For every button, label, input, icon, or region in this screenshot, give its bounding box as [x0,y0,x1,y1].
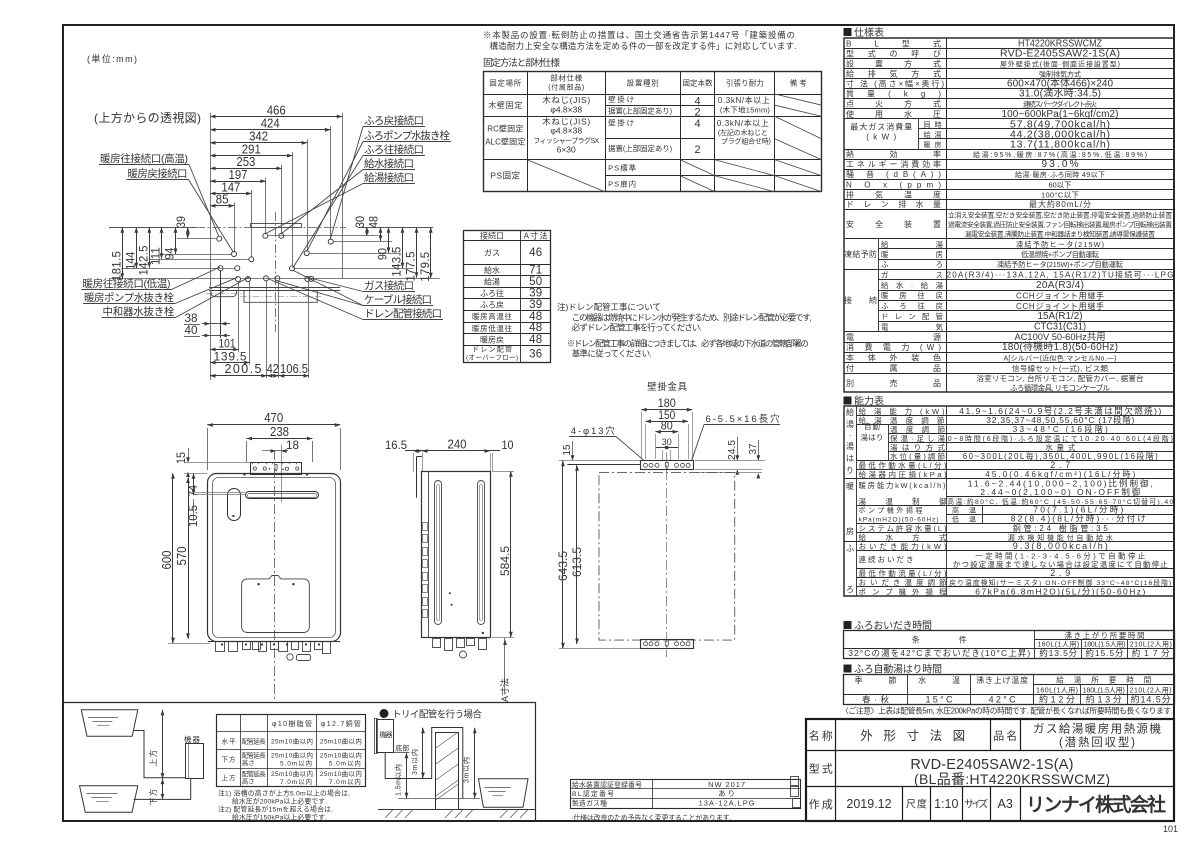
front view mount dots [243,473,245,475]
svg-text:ガス接続口: ガス接続口 [364,279,414,292]
svg-text:部材仕様: 部材仕様 [550,73,583,83]
svg-text:最大約80mL/分: 最大約80mL/分 [1029,199,1091,209]
svg-text:壁掛け: 壁掛け [608,118,634,128]
svg-text:暖房高温往: 暖房高温往 [472,311,513,321]
top view front tab [211,290,237,297]
svg-text:は: は [846,454,854,463]
side view small dots [449,592,451,594]
svg-text:ALC壁固定: ALC壁固定 [485,137,525,147]
svg-text:接続口: 接続口 [480,230,504,240]
dim 48 [380,227,382,241]
fixing table void diagonals [775,94,822,105]
front view top bracket [251,463,302,475]
svg-text:おいだき能力(kW): おいだき能力(kW) [859,541,948,551]
svg-text:16.5: 16.5 [385,438,407,452]
svg-text:6×30: 6×30 [557,145,576,155]
svg-text:ふろ自動湯はり時間: ふろ自動湯はり時間 [854,663,942,676]
svg-text:424: 424 [261,117,280,131]
svg-text:2.7: 2.7 [1050,460,1070,470]
spec row max gas consumption [844,118,1175,120]
svg-text:A[シルバー(近似色:マンセルNo.—): A[シルバー(近似色:マンセルNo.—) [1004,354,1117,363]
svg-text:106.5: 106.5 [280,362,308,376]
svg-text:(付属部品): (付属部品) [548,83,584,92]
torii piping title [380,709,389,718]
lower tub [80,786,138,813]
svg-text:暖房往接続口(高温): 暖房往接続口(高温) [100,152,188,165]
svg-text:給: 給 [846,407,854,417]
cert table [571,780,801,809]
svg-text:φ4.8×38: φ4.8×38 [550,126,582,136]
svg-text:給水: 給水 [484,265,500,275]
svg-text:5.0m以内: 5.0m以内 [329,759,361,768]
svg-text:570: 570 [175,546,189,565]
svg-text:ふろポンプ水抜き栓: ふろポンプ水抜き栓 [364,129,451,142]
svg-text:240: 240 [448,438,467,452]
svg-text:ふ: ふ [846,544,854,553]
svg-text:沸き上がり所要時間: 沸き上がり所要時間 [1065,630,1145,640]
side view top dims [405,450,500,452]
svg-text:210L(2人用): 210L(2人用) [1130,687,1172,695]
svg-text:PS固定: PS固定 [490,171,520,181]
svg-text:39: 39 [529,299,542,311]
svg-text:凍結予防ヒータ(215W): 凍結予防ヒータ(215W) [1016,240,1104,249]
piping section box [63,702,535,704]
svg-text:高さ: 高さ [242,777,255,786]
svg-text:181.5: 181.5 [111,251,123,281]
svg-text:自動: 自動 [864,421,881,431]
svg-text:2019.12: 2019.12 [846,797,891,811]
svg-text:漏電安全装置,沸騰防止装置,中和器詰まり検知装置,誘導雷保護: 漏電安全装置,沸騰防止装置,中和器詰まり検知装置,誘導雷保護装置 [965,230,1155,239]
svg-text:48: 48 [369,216,381,228]
svg-text:25m10曲以内: 25m10曲以内 [320,736,362,745]
svg-text:180L(1.5人用): 180L(1.5人用) [1083,687,1125,695]
svg-text:33~48°C (16段階): 33~48°C (16段階) [1013,424,1108,434]
svg-text:中和器水抜き栓: 中和器水抜き栓 [103,305,176,318]
capacity pump sub column [982,506,984,524]
connection A-dim table [464,231,551,363]
svg-text:暖房往接続口(低温): 暖房往接続口(低温) [83,277,171,290]
svg-text:構造耐力上安全な構造方法を定める件の一部を改定する件」に対応: 構造耐力上安全な構造方法を定める件の一部を改定する件」に対応しています. [490,41,797,51]
svg-text:2: 2 [694,107,700,119]
svg-text:(BL品番:HT4220KRSSWCMZ): (BL品番:HT4220KRSSWCMZ) [914,771,1110,787]
top view vertical centerline [275,212,277,332]
svg-text:湯はり: 湯はり [861,432,884,442]
svg-text:20A(R3/4)···13A,12A, 15A(R1/2): 20A(R3/4)···13A,12A, 15A(R1/2)TU接続可···LP… [947,270,1174,280]
svg-text:50: 50 [529,276,542,288]
svg-text:給湯接続口: 給湯接続口 [364,171,414,184]
front view dim 238 [247,438,313,440]
svg-text:壁掛け: 壁掛け [608,94,634,104]
svg-text:型 式 の 呼 び: 型 式 の 呼 び [846,48,941,58]
svg-text:暖房ポンプ水抜き栓: 暖房ポンプ水抜き栓 [84,291,175,304]
svg-text:60以下: 60以下 [1049,180,1073,189]
svg-text:2: 2 [694,144,700,156]
svg-text:下方: 下方 [222,755,237,764]
svg-text:CCHジョイント用継手: CCHジョイント用継手 [1016,290,1104,300]
top view bottom dims [210,292,212,380]
svg-text:179.5: 179.5 [420,252,432,282]
svg-text:101: 101 [1163,824,1178,834]
svg-text:37: 37 [747,443,759,454]
svg-text:木壁固定: 木壁固定 [488,100,522,110]
svg-text:25m10曲以内: 25m10曲以内 [320,751,362,760]
svg-text:トリイ配管を行う場合: トリイ配管を行う場合 [392,709,482,721]
svg-text:180(待機時1.8)(50-60Hz): 180(待機時1.8)(50-60Hz) [1002,340,1118,353]
svg-text:94: 94 [165,247,177,260]
torii dims [422,728,424,778]
svg-text:暖房戻: 暖房戻 [480,335,504,345]
svg-text:底部: 底部 [395,744,409,753]
svg-text:142.5: 142.5 [138,246,150,276]
svg-text:7.0m以内: 7.0m以内 [329,777,361,786]
svg-text:据置(上部固定あり): 据置(上部固定あり) [608,143,673,153]
svg-text:最低作動流量(L/分): 最低作動流量(L/分) [859,568,948,578]
svg-text:過電流安全装置,過圧防止安全装置,ファン回転検出装置,暖房ポ: 過電流安全装置,過圧防止安全装置,ファン回転検出装置,暖房ポンプ回転検出装置 [948,220,1172,229]
spec row drain amount [844,209,1175,211]
svg-text:木ねじ(JIS): 木ねじ(JIS) [542,95,590,105]
svg-text:600: 600 [160,550,174,569]
svg-text:〈ご注意〉上表は配管長5m, 水圧200kPaの時の時間です: 〈ご注意〉上表は配管長5m, 水圧200kPaの時の時間です. 配管が長くなれば… [841,706,1173,716]
spec rows connections [878,279,1174,281]
svg-text:屋外壁掛式(後面·側面近接設置型): 屋外壁掛式(後面·側面近接設置型) [1000,60,1120,69]
svg-text:φ4.8×38: φ4.8×38 [550,105,582,115]
svg-text:A3: A3 [998,797,1013,811]
svg-text:38: 38 [185,313,198,325]
capacity table header [844,397,852,405]
svg-text:RC壁固定: RC壁固定 [487,124,523,134]
svg-text:15A(R1/2): 15A(R1/2) [1038,311,1083,322]
svg-text:15: 15 [561,444,573,455]
svg-text:584.5: 584.5 [498,546,512,576]
capacity table group column [856,407,858,597]
svg-text:給水装置認証登録番号: 給水装置認証登録番号 [572,780,642,789]
svg-text:低 温: 低 温 [952,515,976,524]
svg-text:約15.5分: 約15.5分 [1086,648,1124,658]
svg-text:48: 48 [529,322,542,334]
svg-text:177.5: 177.5 [406,252,418,282]
svg-text:システム許容水量(L): システム許容水量(L) [859,523,948,533]
svg-text:※本製品の設置·転倒防止の措置は、国土交通省告示第1447号: ※本製品の設置·転倒防止の措置は、国土交通省告示第1447号「建築設備の [483,30,795,40]
svg-text:尺度: 尺度 [906,798,927,811]
svg-text:·仕様は改良のため予告なく変更することがあります.: ·仕様は改良のため予告なく変更することがあります. [571,813,731,822]
svg-text:3m以内: 3m以内 [462,757,471,783]
svg-text:PS扉内: PS扉内 [608,179,636,189]
torii wall hatched [436,733,459,810]
svg-text:壁掛金具: 壁掛金具 [647,381,687,393]
svg-text:71: 71 [529,265,542,277]
svg-text:39: 39 [529,288,542,300]
svg-text:160L(1人用): 160L(1人用) [1036,687,1078,695]
front view dim 18 [262,450,288,452]
svg-text:配管延長: 配管延長 [242,769,267,778]
svg-text:浴室リモコン, 台所リモコン, 配管カバー, 据置台: 浴室リモコン, 台所リモコン, 配管カバー, 据置台 [977,373,1144,383]
svg-text:0.3kN/本以上: 0.3kN/本以上 [718,95,770,105]
svg-text:給 排 気 方 式: 給 排 気 方 式 [846,69,941,79]
front view bottom pipes [216,642,225,652]
svg-text:13.7(11,800kcal/h): 13.7(11,800kcal/h) [1010,139,1110,151]
svg-text:PS標準: PS標準 [608,163,637,173]
svg-text:ケーブル接続口: ケーブル接続口 [364,293,432,306]
svg-text:ガス給湯暖房用熱源機: ガス給湯暖房用熱源機 [1033,722,1162,736]
down dim [162,779,164,800]
svg-text:この機器は燃焼中にドレン水が発生するため、別途ドレン配管が必: この機器は燃焼中にドレン水が発生するため、別途ドレン配管が必要です, [572,313,812,323]
svg-text:一定時間(1·2·3·4.5·6分)で自動停止: 一定時間(1·2·3·4.5·6分)で自動停止 [975,551,1146,561]
spec rows heat efficiency etc [844,159,1175,161]
svg-text:180: 180 [658,396,676,410]
svg-text:湯: 湯 [846,419,854,429]
top view datum bar left [109,227,196,229]
svg-text:ガス: ガス [484,247,500,257]
svg-text:1:10: 1:10 [934,797,958,811]
svg-text:機器: 機器 [380,730,393,739]
svg-text:(単位:mm): (単位:mm) [87,53,137,64]
lower pipe [134,779,191,800]
svg-text:設置種別: 設置種別 [627,78,659,88]
svg-text:製造ガス種: 製造ガス種 [572,799,607,808]
svg-text:下方: 下方 [148,789,158,806]
top view right vertical dims [388,227,390,253]
svg-text:リンナイ株式会社: リンナイ株式会社 [1026,793,1166,816]
bracket dim 30 [656,447,678,449]
svg-text:101: 101 [219,337,236,351]
front view bottom panel [242,576,310,633]
svg-text:200.5: 200.5 [225,362,262,376]
svg-text:ドレン配管: ドレン配管 [472,345,512,354]
svg-text:·: · [849,431,852,440]
svg-text:ふろ循環金具, リモコンケーブル: ふろ循環金具, リモコンケーブル [1010,383,1111,393]
spec row safety devices [844,238,1175,240]
svg-text:仕様表: 仕様表 [854,26,884,39]
svg-text:固定本数: 固定本数 [683,78,714,88]
title block outer [806,719,1174,821]
svg-text:10: 10 [502,438,514,452]
svg-text:備考: 備考 [790,78,808,88]
svg-text:引張り耐力: 引張り耐力 [726,78,764,88]
svg-text:46: 46 [529,247,542,259]
svg-text:注2) 配管延長が15mを超える場合は,: 注2) 配管延長が15mを超える場合は, [218,805,333,814]
fixing method table [484,72,822,192]
svg-text:φ10樹脂管: φ10樹脂管 [272,719,312,728]
front view dim 470 [207,424,340,426]
svg-text:466: 466 [267,103,286,117]
svg-text:高 温: 高 温 [952,506,976,515]
updown dim [162,710,164,779]
svg-text:25m10曲以内: 25m10曲以内 [271,736,313,745]
svg-text:A寸法: A寸法 [499,678,510,702]
svg-text:25m10曲以内: 25m10曲以内 [271,751,313,760]
side view wall bracket [416,456,418,497]
svg-text:BL認定番号: BL認定番号 [572,789,614,798]
svg-text:給水接続口: 給水接続口 [364,157,414,170]
svg-text:32,35,37~48,50,55,60°C (17段階): 32,35,37~48,50,55,60°C (17段階) [986,415,1134,425]
dim 30 [366,227,368,236]
svg-text:凍結予防: 凍結予防 [844,249,877,259]
front view left pill [228,489,241,521]
svg-text:AC100V 50-60Hz共用: AC100V 50-60Hz共用 [1015,332,1106,343]
svg-text:房: 房 [846,526,854,536]
svg-text:31.0(満水時:34.5): 31.0(満水時:34.5) [1019,88,1101,100]
svg-text:上方: 上方 [222,773,237,782]
front view body [208,474,341,642]
top view horizontal dimension stack [210,116,342,118]
svg-text:4: 4 [694,118,700,130]
svg-text:13A·12A,LPG: 13A·12A,LPG [699,799,755,808]
svg-text:RVD-E2405SAW2-1S(A): RVD-E2405SAW2-1S(A) [1000,47,1120,59]
svg-text:25m10曲以内: 25m10曲以内 [320,769,362,778]
svg-text:4-φ13穴: 4-φ13穴 [571,425,615,437]
svg-text:1.5m以内: 1.5m以内 [394,764,403,796]
top view horizontal centerline [196,227,346,229]
svg-text:2.44~0(2,100~0) ON-OFF制御: 2.44~0(2,100~0) ON-OFF制御 [980,487,1140,497]
svg-text:600×470(本体466)×240: 600×470(本体466)×240 [1007,77,1113,90]
svg-text:(オーバーフロー): (オーバーフロー) [466,354,518,362]
side view bottom pipes [433,639,441,648]
spec table header [844,28,852,36]
svg-text:(木下地15mm): (木下地15mm) [720,105,771,115]
bracket unit outline dash-dot [599,472,735,640]
svg-text:144: 144 [125,251,137,270]
capacity table outer [844,406,1174,596]
bath auto fill table header [844,665,852,673]
svg-text:上方: 上方 [148,750,158,767]
svg-text:必ずドレン配管工事を行ってください.: 必ずドレン配管工事を行ってください. [572,323,702,333]
svg-text:湯: 湯 [846,441,854,451]
svg-text:水 温: 水 温 [918,675,960,685]
svg-text:kPa(mH2O)(50-60Hz): kPa(mH2O)(50-60Hz) [859,517,939,524]
svg-text:水平: 水平 [222,736,237,745]
top view inner rect [251,224,302,228]
title block row3 cols [902,786,904,821]
svg-text:固定方法と部材仕様: 固定方法と部材仕様 [483,57,560,69]
svg-text:配管延長: 配管延長 [242,736,267,745]
svg-text:238: 238 [270,425,289,439]
svg-text:給湯·暖房·ふろ同時 49以下: 給湯·暖房·ふろ同時 49以下 [1015,170,1105,179]
svg-text:2.9: 2.9 [1050,568,1070,578]
svg-text:(左記の木ねじと: (左記の木ねじと [718,128,768,137]
svg-text:給水圧が200kPa以上必要です.: 給水圧が200kPa以上必要です. [232,797,327,806]
svg-text:接 続: 接 続 [844,295,877,305]
bath reheat table header [844,621,852,629]
svg-text:CCHジョイント用継手: CCHジョイント用継手 [1016,301,1104,311]
svg-text:30: 30 [662,437,672,448]
ground line and hatch [378,809,535,811]
torii pipe path [385,728,463,800]
svg-text:信号線セット(一式), ビス類: 信号線セット(一式), ビス類 [1012,363,1109,373]
svg-text:暖: 暖 [846,482,854,491]
top view lower front rect [244,290,317,302]
side view A-dim arrow [504,638,506,693]
svg-text:最大ガス消費量: 最大ガス消費量 [850,121,912,131]
bracket dim 80 [655,431,678,433]
svg-text:基準に従ってください.: 基準に従ってください. [572,349,652,359]
svg-text:暖房低温往: 暖房低温往 [472,323,513,333]
svg-text:36: 36 [529,348,542,360]
svg-text:ドレン配管接続口: ドレン配管接続口 [364,307,442,320]
svg-text:配管延長: 配管延長 [242,751,267,760]
svg-text:7.0m以内: 7.0m以内 [280,777,312,786]
svg-text:143.5: 143.5 [392,247,404,277]
top view extension lines from dims to ports [342,113,344,279]
svg-text:φ12.7銅管: φ12.7銅管 [321,719,361,728]
torii kiki box [377,720,394,753]
side view body [422,472,491,638]
svg-text:連続スパークダイレクト点火: 連続スパークダイレクト点火 [1023,100,1097,109]
dim 39 [187,227,189,238]
top view connection ports [217,236,222,241]
svg-text:立消え安全装置,空だき安全装置,空だき防止装置,停電安全装置: 立消え安全装置,空だき安全装置,空だき防止装置,停電安全装置,過熱防止装置 [948,211,1172,220]
bracket top piece [567,464,640,466]
title block row1 cols [835,719,837,821]
bracket dim 180 [641,409,692,411]
svg-text:最低作動水量(L/分): 最低作動水量(L/分) [859,460,948,470]
side view rear connectors [423,523,428,531]
top view left vertical dims [122,227,124,278]
svg-text:39: 39 [176,216,188,228]
svg-text:(上方からの透視図): (上方からの透視図) [94,110,201,125]
svg-text:3m以内: 3m以内 [410,749,419,775]
svg-text:90: 90 [378,248,390,260]
svg-text:エネルギー消費効率: エネルギー消費効率 [846,159,941,169]
svg-text:ふろ往接続口: ふろ往接続口 [364,143,424,156]
svg-text:強制排気方式: 強制排気方式 [1039,70,1081,79]
svg-text:給水圧が150kPa以上必要です.: 給水圧が150kPa以上必要です. [232,813,327,822]
top view datum bar right [358,227,433,229]
spec rows freeze prevention [878,248,1174,250]
svg-text:※ドレン配管工事の詳細につきましては、必ず各地域の下水道の管: ※ドレン配管工事の詳細につきましては、必ず各地域の下水道の管轄部署の [567,339,809,349]
top view front edge lines [209,287,340,289]
side view rib slots [435,481,442,625]
svg-text:NW 2017: NW 2017 [708,780,745,789]
svg-text:暖房能力kW(kcal/h): 暖房能力kW(kcal/h) [859,480,947,490]
top view port connector lines left [177,238,217,240]
svg-text:42: 42 [267,362,279,376]
svg-text:5.0m以内: 5.0m以内 [280,759,312,768]
svg-text:25m10曲以内: 25m10曲以内 [271,769,313,778]
svg-text:32°Cの湯を42°Cまでおいだき(10°C上昇): 32°Cの湯を42°Cまでおいだき(10°C上昇) [848,648,1030,658]
svg-text:A寸法: A寸法 [524,230,548,240]
svg-text:80: 80 [661,421,673,433]
svg-text:凍結予防ヒータ(215W)+ポンプ自動運転: 凍結予防ヒータ(215W)+ポンプ自動運転 [997,260,1123,269]
svg-text:プラグ組合せ時): プラグ組合せ時) [721,137,771,146]
svg-text:約13.5分: 約13.5分 [1039,648,1077,658]
bracket center line [666,452,668,657]
svg-text:本 体 外 装 色: 本 体 外 装 色 [846,353,941,363]
svg-text:サイズ: サイズ [964,798,988,811]
spec table outer [844,38,1174,392]
svg-text:85: 85 [216,193,229,207]
svg-text:給湯: 給湯 [484,277,500,287]
svg-text:高さ: 高さ [242,758,255,767]
capacity auto-fill sub column [888,425,890,461]
svg-text:注1) 浴槽の高さが上方5.0m以上の場合は,: 注1) 浴槽の高さが上方5.0m以上の場合は, [218,789,350,798]
svg-text:沸き上げ温度: 沸き上げ温度 [976,675,1028,685]
svg-text:低温燃焼+ポンプ自動運転: 低温燃焼+ポンプ自動運転 [1021,250,1099,259]
svg-text:水量式: 水量式 [1045,442,1076,452]
svg-text:40: 40 [185,325,198,337]
svg-text:15°C: 15°C [926,695,954,705]
revision boxes [791,777,799,786]
svg-text:固定場所: 固定場所 [489,78,522,88]
svg-text:ふろ戻接続口: ふろ戻接続口 [364,114,424,127]
svg-text:ポンプ機外揚程: ポンプ機外揚程 [859,506,923,515]
svg-text:約14.5分: 約14.5分 [1131,694,1171,705]
svg-text:100°C以下: 100°C以下 [1041,190,1080,199]
pipe length table [217,715,366,787]
svg-text:0.3kN/本以上: 0.3kN/本以上 [717,118,769,128]
svg-text:42°C: 42°C [989,695,1017,705]
svg-text:48: 48 [529,311,542,323]
svg-text:18: 18 [286,438,299,452]
